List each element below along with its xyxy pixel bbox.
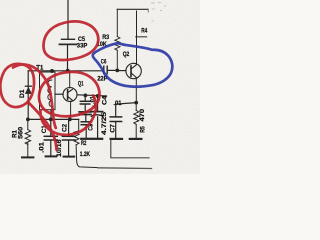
wire rail A bbox=[28, 70, 103, 72]
svg-text:Q1: Q1 bbox=[78, 81, 84, 87]
capacitor C7 bbox=[110, 117, 122, 139]
resistor R2 bbox=[74, 119, 98, 167]
svg-text:C7: C7 bbox=[111, 123, 117, 132]
wire T1 bottom to rail B bbox=[50, 110, 52, 120]
resistor R3 bbox=[115, 9, 120, 70]
diode D1 bbox=[25, 71, 31, 120]
node Q2 emitter junction bbox=[134, 101, 138, 105]
svg-text:R3: R3 bbox=[102, 35, 110, 41]
svg-text:C5: C5 bbox=[78, 37, 86, 43]
annotation red tail lower bbox=[29, 103, 57, 150]
svg-text:D1: D1 bbox=[20, 89, 26, 98]
node rail B dot C1 bbox=[49, 118, 53, 122]
resistor R5 bbox=[130, 104, 142, 139]
wire C5 top lead bbox=[67, 0, 69, 39]
resistor R4 lead bbox=[136, 36, 147, 38]
wire L to output bbox=[111, 140, 149, 158]
wire C7 branch bbox=[116, 103, 137, 117]
wire bottom rail bbox=[98, 167, 152, 170]
svg-text:560: 560 bbox=[18, 126, 24, 139]
node rail B dot R1 bbox=[26, 118, 30, 122]
wire Q1 base bbox=[55, 93, 63, 95]
svg-text:4.7/25: 4.7/25 bbox=[102, 111, 108, 135]
annotation red loop C5 bbox=[0, 21, 99, 149]
capacitor C2 bbox=[62, 119, 75, 156]
svg-text:.01: .01 bbox=[40, 141, 46, 153]
capacitor C4 electrolytic bbox=[91, 94, 102, 139]
svg-text:.01: .01 bbox=[113, 101, 122, 107]
svg-text:10/16: 10/16 bbox=[57, 139, 63, 157]
capacitor C5 bbox=[60, 39, 77, 44]
transistor Q2 bbox=[126, 11, 141, 102]
svg-text:33P: 33P bbox=[77, 43, 88, 49]
svg-text:470: 470 bbox=[140, 108, 146, 121]
wire C5 to rail A bbox=[67, 45, 69, 71]
svg-text:C2: C2 bbox=[62, 123, 68, 132]
svg-text:R4: R4 bbox=[141, 28, 148, 34]
annotation blue loop Q2 bbox=[93, 43, 173, 86]
scan speck marks bbox=[151, 3, 166, 22]
transformer T1 coil bbox=[48, 80, 52, 107]
svg-text:C4: C4 bbox=[102, 95, 108, 105]
svg-text:Q2: Q2 bbox=[123, 52, 130, 58]
node Q2 base junction bbox=[115, 69, 119, 73]
transformer T1 box bbox=[40, 72, 56, 110]
annotation red tail upper bbox=[13, 64, 56, 128]
node rail B dot C2 bbox=[68, 118, 72, 122]
wire rail B bbox=[28, 118, 78, 120]
wire stub right end bbox=[147, 9, 149, 12]
resistor R1 bbox=[22, 119, 33, 157]
wire Q1 right to caps bbox=[77, 95, 107, 96]
wire top rail bbox=[117, 8, 148, 10]
annotation red loop D1 bbox=[0, 64, 34, 107]
svg-text:C6: C6 bbox=[101, 59, 107, 65]
svg-text:R2: R2 bbox=[81, 141, 87, 147]
svg-text:R5: R5 bbox=[140, 126, 146, 133]
capacitor C6 bbox=[104, 66, 118, 74]
node rail A dot 1 bbox=[50, 69, 54, 73]
node rail A dot 2 bbox=[66, 69, 70, 73]
annotation red loop Q1 bbox=[39, 72, 100, 116]
capacitor C1 bbox=[44, 119, 57, 156]
svg-text:1.2K: 1.2K bbox=[80, 152, 91, 158]
annotation red loop lower outer bbox=[40, 96, 96, 135]
wire to Q2 base bbox=[117, 70, 126, 72]
transistor Q1 bbox=[63, 71, 77, 119]
capacitor C3 bbox=[81, 121, 91, 123]
capacitor stack node (.01) bbox=[79, 94, 91, 139]
